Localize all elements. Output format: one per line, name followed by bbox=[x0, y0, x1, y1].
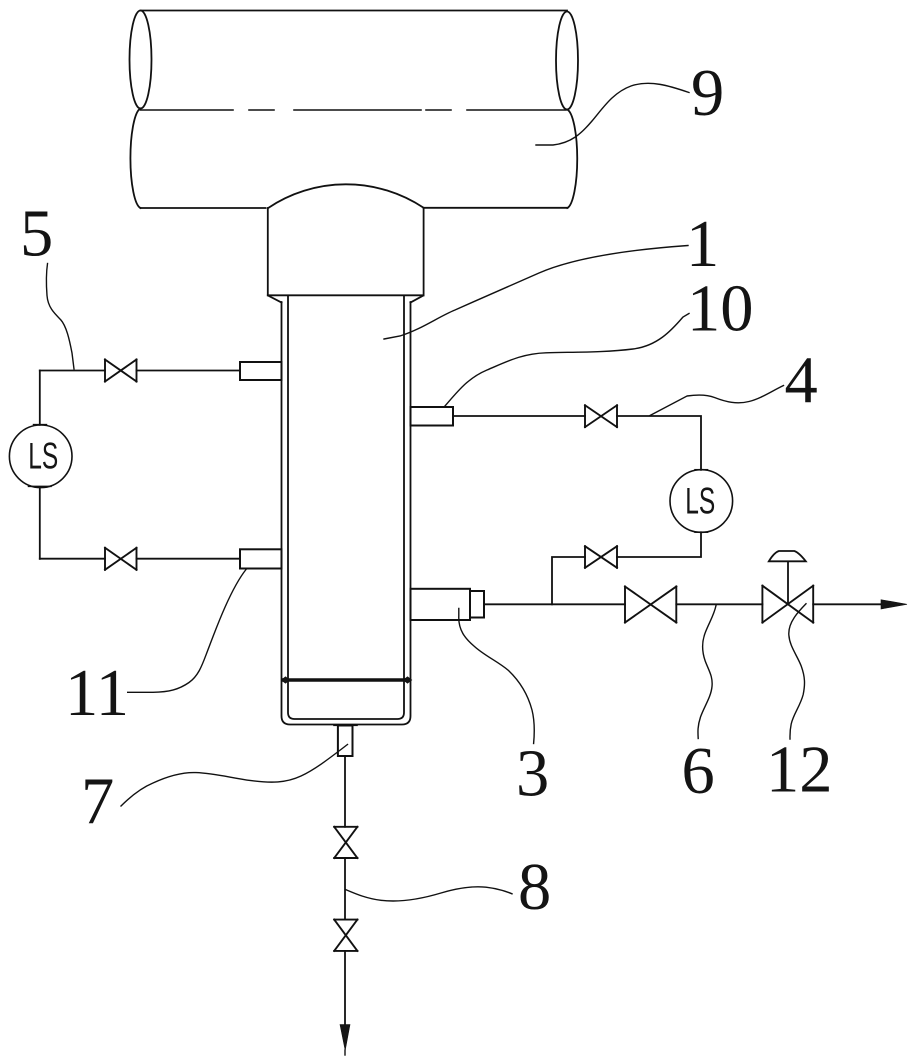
svg-text:10: 10 bbox=[687, 273, 754, 346]
svg-text:1: 1 bbox=[686, 208, 719, 281]
svg-text:8: 8 bbox=[518, 851, 551, 924]
svg-text:6: 6 bbox=[682, 735, 715, 808]
svg-text:3: 3 bbox=[516, 738, 549, 811]
svg-text:LS: LS bbox=[28, 436, 58, 477]
svg-text:5: 5 bbox=[20, 198, 53, 271]
svg-text:7: 7 bbox=[81, 766, 114, 839]
svg-text:11: 11 bbox=[65, 657, 129, 730]
svg-text:LS: LS bbox=[685, 481, 715, 522]
svg-text:4: 4 bbox=[785, 344, 818, 417]
svg-text:9: 9 bbox=[691, 57, 724, 130]
svg-text:12: 12 bbox=[766, 734, 833, 807]
